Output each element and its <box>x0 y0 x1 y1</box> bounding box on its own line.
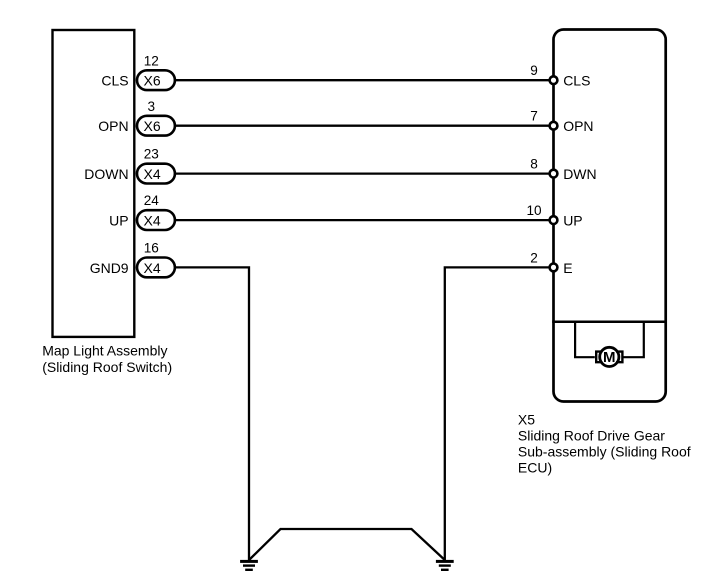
svg-text:8: 8 <box>530 157 538 172</box>
svg-text:OPN: OPN <box>98 118 128 134</box>
svg-text:X4: X4 <box>144 213 161 229</box>
svg-text:Sub-assembly (Sliding Roof: Sub-assembly (Sliding Roof <box>518 444 691 460</box>
svg-text:2: 2 <box>530 250 538 265</box>
svg-text:23: 23 <box>144 147 159 162</box>
svg-text:12: 12 <box>144 53 159 68</box>
svg-text:DWN: DWN <box>563 166 596 182</box>
svg-text:GND9: GND9 <box>90 260 129 276</box>
svg-text:UP: UP <box>563 213 582 229</box>
svg-text:(Sliding Roof Switch): (Sliding Roof Switch) <box>42 359 172 375</box>
svg-text:X6: X6 <box>144 73 161 89</box>
svg-text:X5: X5 <box>518 412 535 428</box>
svg-text:7: 7 <box>530 109 538 124</box>
svg-text:X6: X6 <box>144 118 161 134</box>
svg-text:DOWN: DOWN <box>84 166 128 182</box>
svg-text:M: M <box>603 349 616 366</box>
svg-text:X4: X4 <box>144 260 161 276</box>
svg-text:24: 24 <box>144 193 160 208</box>
svg-text:OPN: OPN <box>563 118 593 134</box>
svg-text:E: E <box>563 260 572 276</box>
svg-text:Sliding Roof Drive Gear: Sliding Roof Drive Gear <box>518 428 665 444</box>
svg-text:10: 10 <box>526 203 542 218</box>
svg-text:X4: X4 <box>144 166 161 182</box>
svg-text:16: 16 <box>144 241 159 256</box>
svg-text:9: 9 <box>530 63 538 78</box>
svg-text:3: 3 <box>148 99 156 114</box>
svg-text:Map Light Assembly: Map Light Assembly <box>42 343 167 359</box>
svg-text:CLS: CLS <box>563 73 590 89</box>
svg-text:CLS: CLS <box>101 73 128 89</box>
svg-text:ECU): ECU) <box>518 459 552 475</box>
svg-text:UP: UP <box>109 213 128 229</box>
